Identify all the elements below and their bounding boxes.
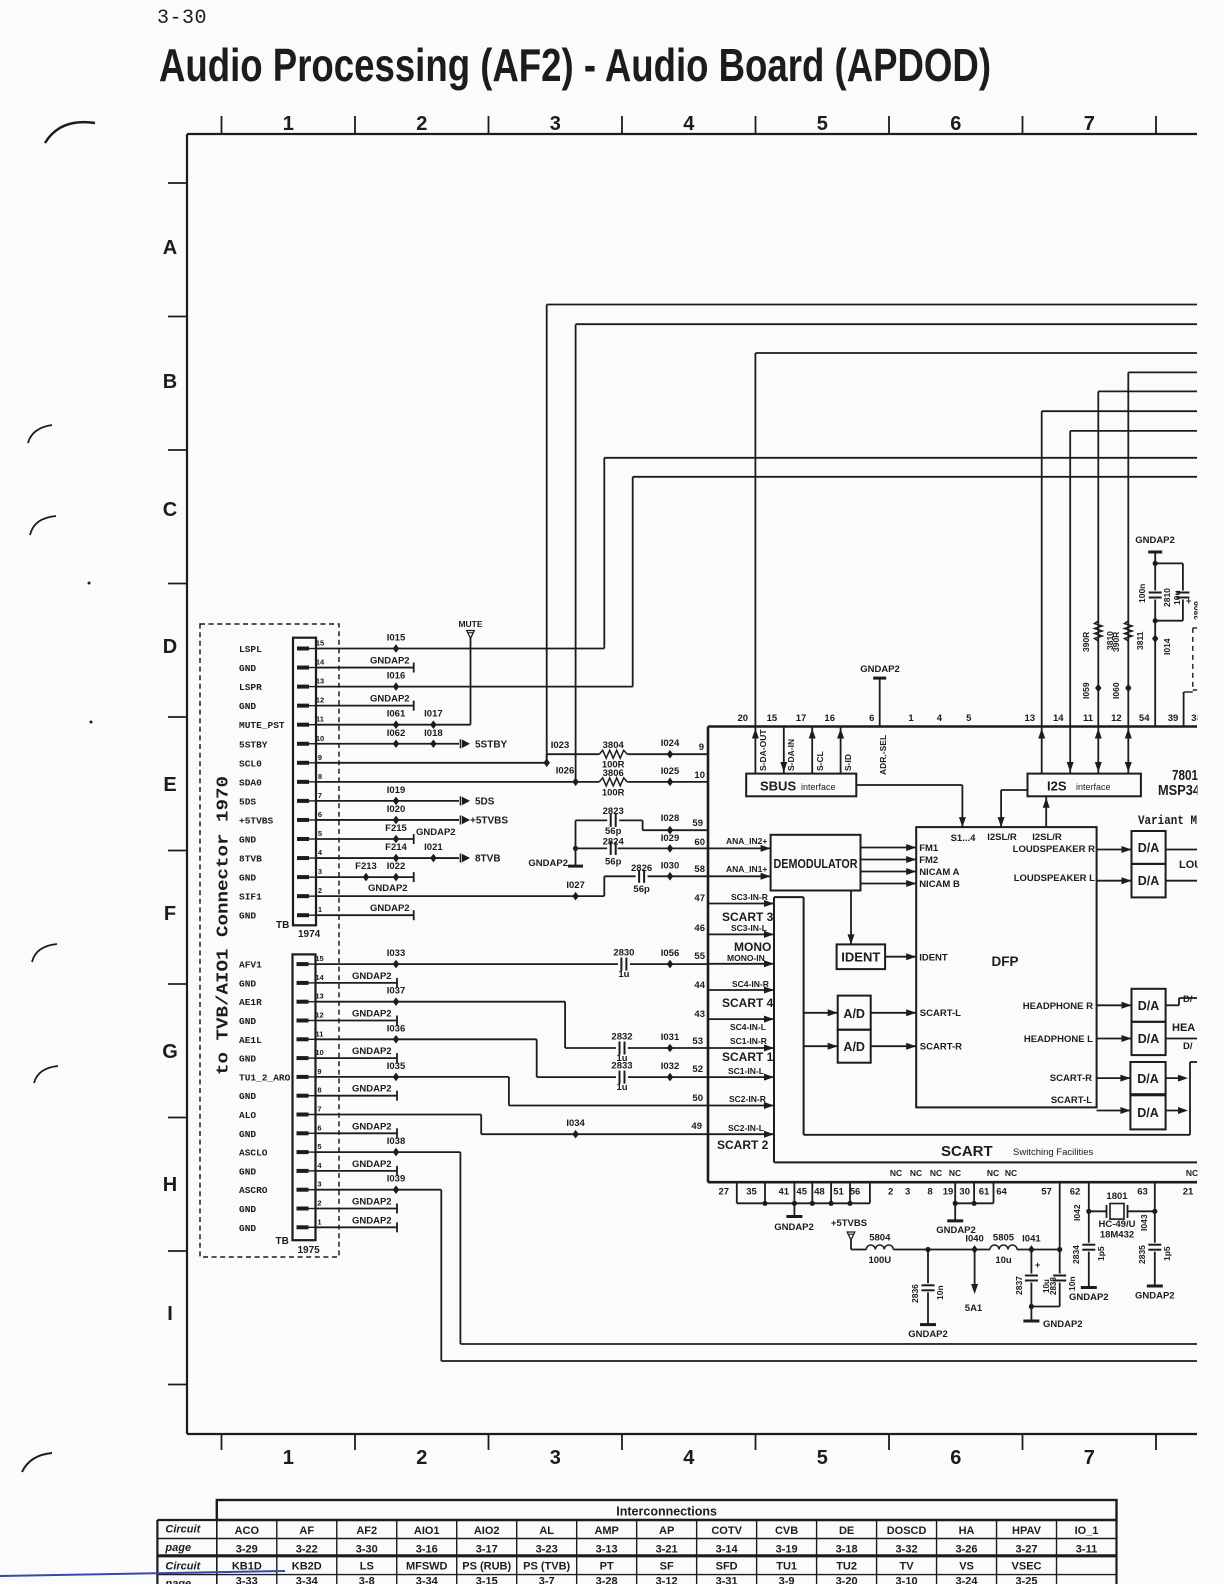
svg-text:GND: GND bbox=[239, 1204, 256, 1215]
junction pin 57 bbox=[1057, 1247, 1062, 1252]
wire TU1_2_ARO pin9 to IC pin 50 bbox=[316, 1076, 509, 1078]
svg-text:10: 10 bbox=[315, 1048, 323, 1057]
svg-text:GNDAP2: GNDAP2 bbox=[860, 664, 900, 675]
svg-text:44: 44 bbox=[694, 980, 705, 991]
svg-text:3804: 3804 bbox=[603, 740, 625, 751]
svg-text:55: 55 bbox=[694, 951, 705, 962]
svg-text:11: 11 bbox=[316, 715, 324, 724]
pin 60 cap 2824 bbox=[644, 847, 708, 849]
svg-text:5STBY: 5STBY bbox=[239, 739, 268, 750]
svg-text:56p: 56p bbox=[605, 856, 622, 867]
svg-text:8: 8 bbox=[318, 772, 322, 781]
svg-text:page: page bbox=[164, 1578, 191, 1584]
svg-text:DOSCD: DOSCD bbox=[887, 1525, 927, 1537]
svg-text:2: 2 bbox=[317, 1199, 321, 1208]
svg-text:SCART-L: SCART-L bbox=[1051, 1095, 1092, 1106]
svg-text:2: 2 bbox=[416, 113, 427, 135]
svg-text:HEADPHONE R: HEADPHONE R bbox=[1023, 1001, 1093, 1012]
svg-text:Switching Facilities: Switching Facilities bbox=[1013, 1147, 1093, 1158]
bead I019 bbox=[393, 797, 399, 806]
svg-text:F: F bbox=[164, 903, 176, 925]
svg-text:3-13: 3-13 bbox=[596, 1544, 618, 1556]
svg-text:ASCRO: ASCRO bbox=[239, 1185, 268, 1196]
svg-text:2830: 2830 bbox=[613, 948, 634, 959]
column ticks and numbers top bbox=[221, 116, 223, 134]
SCART-R arrow to DA bbox=[1097, 1077, 1131, 1079]
svg-text:3811: 3811 bbox=[1135, 631, 1145, 650]
svg-text:20: 20 bbox=[738, 713, 749, 724]
svg-text:2838: 2838 bbox=[1049, 1277, 1058, 1295]
wire SIF1 pin2 to cap 2826 bbox=[316, 895, 604, 897]
svg-text:10: 10 bbox=[316, 734, 324, 743]
svg-text:NC: NC bbox=[930, 1168, 942, 1178]
svg-text:7: 7 bbox=[317, 1105, 321, 1114]
wire GND pin6 stub bbox=[316, 1132, 397, 1134]
svg-text:I2SL/R: I2SL/R bbox=[987, 832, 1017, 843]
svg-text:SCART 3: SCART 3 bbox=[722, 910, 774, 924]
svg-text:I033: I033 bbox=[387, 948, 406, 959]
svg-text:KB2D: KB2D bbox=[292, 1561, 322, 1573]
svg-text:GNDAP2: GNDAP2 bbox=[908, 1329, 948, 1340]
svg-text:3-28: 3-28 bbox=[596, 1576, 618, 1584]
svg-text:D: D bbox=[163, 636, 177, 658]
svg-text:GND: GND bbox=[239, 911, 256, 922]
bead I039 bbox=[393, 1185, 399, 1194]
svg-text:NC: NC bbox=[910, 1168, 922, 1178]
DA headphone R box bbox=[1132, 989, 1166, 1022]
svg-text:GNDAP2: GNDAP2 bbox=[352, 1084, 392, 1095]
wire pin11 I2S bidirectional with resistor 3810 bbox=[1097, 727, 1099, 774]
svg-text:2823: 2823 bbox=[603, 806, 624, 817]
svg-text:SC4-IN-L: SC4-IN-L bbox=[730, 1022, 766, 1032]
svg-text:DEMODULATOR: DEMODULATOR bbox=[774, 857, 858, 871]
svg-text:NC: NC bbox=[1005, 1168, 1017, 1178]
svg-text:3-9: 3-9 bbox=[779, 1576, 795, 1584]
svg-text:2835: 2835 bbox=[1137, 1245, 1147, 1264]
svg-text:10: 10 bbox=[694, 770, 705, 781]
DA headphone L box bbox=[1132, 1022, 1166, 1055]
svg-text:AF2: AF2 bbox=[356, 1525, 377, 1537]
svg-text:2: 2 bbox=[318, 886, 322, 895]
svg-text:S-CL: S-CL bbox=[815, 751, 825, 771]
wire AFV1 pin15 to cap 2830 to IC pin 55 bbox=[316, 963, 618, 965]
wire pin39 to dashed module bbox=[1183, 692, 1185, 727]
svg-text:8: 8 bbox=[927, 1187, 932, 1198]
svg-text:+5TVBS: +5TVBS bbox=[831, 1218, 867, 1229]
svg-text:14: 14 bbox=[316, 658, 325, 667]
svg-text:50: 50 bbox=[692, 1093, 703, 1104]
bead I040 and 5A1 arrow bbox=[971, 1245, 977, 1254]
svg-text:35: 35 bbox=[746, 1187, 757, 1198]
svg-text:58: 58 bbox=[694, 864, 705, 875]
svg-text:56p: 56p bbox=[605, 826, 622, 837]
svg-text:I016: I016 bbox=[387, 671, 406, 682]
svg-text:GND: GND bbox=[239, 1129, 256, 1140]
svg-text:9: 9 bbox=[318, 753, 322, 762]
svg-text:51: 51 bbox=[833, 1187, 844, 1198]
connector TB1975 bbox=[293, 954, 316, 1240]
svg-text:5STBY: 5STBY bbox=[475, 739, 508, 750]
schematic frame border bbox=[187, 133, 1197, 135]
svg-text:NICAM A: NICAM A bbox=[919, 867, 959, 878]
wire GND pin3 stub with beads F213 I022 bbox=[316, 876, 414, 878]
svg-text:6: 6 bbox=[317, 1123, 321, 1132]
wire GND pin12 stub bbox=[316, 705, 414, 707]
svg-text:4: 4 bbox=[683, 1447, 695, 1469]
svg-text:10u: 10u bbox=[995, 1255, 1012, 1266]
svg-text:3: 3 bbox=[550, 113, 561, 135]
svg-text:I040: I040 bbox=[965, 1234, 984, 1245]
svg-text:6: 6 bbox=[950, 1447, 961, 1469]
svg-text:2832: 2832 bbox=[611, 1032, 632, 1043]
svg-text:57: 57 bbox=[1041, 1187, 1052, 1198]
svg-text:HEADPHONE L: HEADPHONE L bbox=[1024, 1034, 1093, 1045]
svg-text:GNDAP2: GNDAP2 bbox=[368, 883, 408, 894]
svg-text:3-29: 3-29 bbox=[236, 1544, 258, 1556]
svg-text:1: 1 bbox=[908, 713, 914, 724]
svg-text:PT: PT bbox=[600, 1561, 614, 1573]
svg-text:TV: TV bbox=[900, 1561, 915, 1573]
HEADPHONE R arrow to DA bbox=[1097, 1004, 1132, 1006]
svg-text:F215: F215 bbox=[385, 823, 407, 834]
svg-text:AE1R: AE1R bbox=[239, 997, 262, 1008]
resistor 3806 100R to IC pin 10 bbox=[599, 778, 627, 786]
svg-text:3-27: 3-27 bbox=[1016, 1544, 1038, 1556]
bead I041 bbox=[1028, 1245, 1034, 1254]
svg-text:27: 27 bbox=[719, 1187, 730, 1198]
wire +5TVBS pin6 bbox=[316, 819, 459, 821]
DFP to I2S wire bbox=[1045, 796, 1047, 827]
svg-text:30: 30 bbox=[959, 1187, 970, 1198]
svg-text:5804: 5804 bbox=[869, 1233, 891, 1244]
svg-text:MONO-IN: MONO-IN bbox=[727, 953, 765, 963]
svg-text:NICAM B: NICAM B bbox=[919, 879, 960, 890]
svg-text:3-17: 3-17 bbox=[476, 1544, 498, 1556]
wire GND pin8 stub bbox=[316, 1095, 397, 1097]
capacitor 2834 1p5 bbox=[1082, 1243, 1095, 1252]
svg-text:FM1: FM1 bbox=[919, 843, 939, 854]
bead I034 bbox=[572, 1130, 578, 1139]
svg-text:3-33: 3-33 bbox=[236, 1576, 258, 1584]
svg-text:PS (RUB): PS (RUB) bbox=[462, 1561, 511, 1573]
svg-text:53: 53 bbox=[692, 1036, 703, 1047]
svg-text:3-25: 3-25 bbox=[1016, 1576, 1038, 1584]
jog and resistor 3804 100R to IC pin 9 bbox=[546, 754, 548, 763]
svg-text:MONO: MONO bbox=[734, 940, 771, 954]
svg-text:60: 60 bbox=[694, 837, 705, 848]
svg-text:390R: 390R bbox=[1111, 632, 1121, 652]
svg-text:GNDAP2: GNDAP2 bbox=[352, 971, 392, 982]
svg-text:GNDAP2: GNDAP2 bbox=[352, 1009, 392, 1020]
svg-text:SCART: SCART bbox=[941, 1143, 993, 1160]
svg-text:1p5: 1p5 bbox=[1096, 1246, 1106, 1261]
arrows SCART bus to AD bbox=[804, 1012, 838, 1014]
capacitor 2830 1u bbox=[619, 958, 628, 971]
svg-text:3: 3 bbox=[550, 1447, 561, 1469]
svg-text:10u: 10u bbox=[1172, 590, 1182, 605]
bead I031 bbox=[667, 1044, 673, 1053]
wire MUTE_PST pin11 to MUTE arrow bbox=[316, 724, 471, 726]
svg-text:11: 11 bbox=[316, 1029, 324, 1038]
svg-text:GND: GND bbox=[239, 663, 256, 674]
svg-text:7: 7 bbox=[1084, 113, 1095, 135]
svg-text:I015: I015 bbox=[387, 633, 406, 644]
svg-text:5: 5 bbox=[817, 1447, 828, 1469]
svg-text:I019: I019 bbox=[387, 785, 406, 796]
svg-text:AMP: AMP bbox=[594, 1525, 618, 1537]
wire GND pin5 stub with bead F215 bbox=[316, 838, 414, 840]
wire LSPL pin15 to net bbox=[316, 648, 604, 650]
svg-text:3-31: 3-31 bbox=[716, 1576, 738, 1584]
svg-text:NC: NC bbox=[1186, 1168, 1198, 1178]
svg-text:3-15: 3-15 bbox=[476, 1576, 498, 1584]
svg-text:GNDAP2: GNDAP2 bbox=[352, 1046, 392, 1057]
svg-text:7: 7 bbox=[318, 791, 322, 800]
SBUS interface box bbox=[746, 774, 856, 797]
svg-text:GND: GND bbox=[239, 1091, 256, 1102]
svg-text:100n: 100n bbox=[1137, 584, 1147, 603]
svg-text:GNDAP2: GNDAP2 bbox=[1043, 1319, 1083, 1330]
svg-text:3-16: 3-16 bbox=[416, 1544, 438, 1556]
svg-text:43: 43 bbox=[694, 1009, 705, 1020]
svg-text:GNDAP2: GNDAP2 bbox=[0, 0, 40, 3]
svg-text:I021: I021 bbox=[424, 842, 443, 853]
svg-text:GNDAP2: GNDAP2 bbox=[1135, 535, 1175, 546]
svg-text:6: 6 bbox=[950, 113, 961, 135]
feedback bus bottom horizontal bbox=[804, 1134, 1190, 1136]
capacitor 2833 1u bbox=[618, 1071, 627, 1084]
bead I038 bbox=[393, 1148, 399, 1157]
bead I028 bbox=[667, 826, 673, 835]
svg-text:2824: 2824 bbox=[603, 836, 625, 847]
svg-text:9: 9 bbox=[317, 1067, 321, 1076]
svg-text:10n: 10n bbox=[935, 1285, 945, 1300]
svg-text:54: 54 bbox=[1139, 713, 1150, 724]
svg-text:GND: GND bbox=[239, 1166, 256, 1177]
svg-text:D/: D/ bbox=[1183, 1041, 1193, 1052]
svg-text:I026: I026 bbox=[556, 766, 575, 777]
svg-text:5: 5 bbox=[317, 1142, 321, 1151]
svg-text:GND: GND bbox=[239, 835, 256, 846]
ANA_IN2+ input wire pin 60 bbox=[708, 847, 771, 849]
svg-text:13: 13 bbox=[1025, 713, 1036, 724]
svg-text:S-ID: S-ID bbox=[843, 754, 853, 771]
blue pen line bottom left bbox=[0, 1571, 285, 1576]
DFP box bbox=[916, 827, 1096, 1107]
svg-text:interface: interface bbox=[801, 782, 836, 792]
svg-text:AFV1: AFV1 bbox=[239, 960, 262, 971]
row ticks and letters left bbox=[168, 182, 187, 184]
bead F214 bbox=[393, 854, 399, 863]
svg-text:I061: I061 bbox=[387, 709, 406, 720]
capacitor 2810 100n bbox=[1149, 591, 1162, 600]
wire pin17 S-CL bbox=[811, 727, 813, 774]
bead I062 bbox=[393, 739, 399, 748]
svg-text:GNDAP2: GNDAP2 bbox=[528, 858, 568, 869]
svg-text:Circuit: Circuit bbox=[165, 1561, 201, 1573]
svg-text:GND: GND bbox=[239, 701, 256, 712]
DEMODULATOR to DFP arrows FM1 FM2 NICAM A NICAM B bbox=[861, 847, 917, 849]
svg-text:TB: TB bbox=[276, 920, 289, 931]
svg-text:AL: AL bbox=[539, 1525, 554, 1537]
svg-text:52: 52 bbox=[692, 1064, 703, 1075]
svg-text:FM2: FM2 bbox=[919, 855, 938, 866]
svg-text:+5TVBS: +5TVBS bbox=[239, 815, 274, 826]
svg-text:SC1-IN-L: SC1-IN-L bbox=[728, 1066, 764, 1076]
svg-text:6: 6 bbox=[318, 810, 322, 819]
svg-text:ASCLO: ASCLO bbox=[239, 1148, 268, 1159]
wire GND pin14 stub bbox=[316, 982, 397, 984]
svg-text:I028: I028 bbox=[661, 813, 680, 824]
svg-text:MSP34: MSP34 bbox=[1158, 782, 1201, 799]
wire GND pin1 stub bbox=[316, 1226, 397, 1228]
wire pin15 S-DA-IN bbox=[783, 727, 785, 774]
svg-text:Audio Processing (AF2) - Audio: Audio Processing (AF2) - Audio Board (AP… bbox=[159, 39, 991, 91]
svg-text:47: 47 bbox=[694, 893, 705, 904]
svg-text:AF: AF bbox=[299, 1525, 314, 1537]
svg-text:ANA_IN1+: ANA_IN1+ bbox=[726, 864, 767, 874]
svg-text:I031: I031 bbox=[661, 1032, 680, 1043]
svg-text:100U: 100U bbox=[868, 1255, 891, 1266]
svg-text:3-30: 3-30 bbox=[356, 1544, 378, 1556]
svg-text:13: 13 bbox=[316, 677, 324, 686]
svg-text:GND: GND bbox=[239, 1054, 256, 1065]
capacitor 2836 10n bbox=[922, 1283, 935, 1292]
svg-text:1u: 1u bbox=[616, 1082, 627, 1093]
svg-text:MUTE: MUTE bbox=[458, 619, 482, 629]
bead I037 bbox=[393, 997, 399, 1006]
svg-text:5805: 5805 bbox=[993, 1233, 1015, 1244]
connector TB1974 bbox=[293, 638, 316, 926]
pin6 ADR.-SEL to GNDAP2 bbox=[879, 678, 881, 726]
svg-text:62: 62 bbox=[1070, 1187, 1081, 1198]
svg-text:SCART-L: SCART-L bbox=[920, 1008, 961, 1019]
svg-text:I2SL/R: I2SL/R bbox=[1032, 832, 1062, 843]
svg-text:I024: I024 bbox=[661, 738, 680, 749]
svg-text:C: C bbox=[163, 499, 177, 521]
svg-text:4: 4 bbox=[683, 113, 695, 135]
wire AE1L pin11 to cap 2833 to IC pin 52 bbox=[316, 1038, 537, 1040]
svg-text:Circuit: Circuit bbox=[165, 1524, 201, 1536]
wire 5STBY pin10 bbox=[316, 743, 459, 745]
wire pin14 I2S down arrow bbox=[1069, 727, 1071, 774]
svg-text:E: E bbox=[163, 774, 176, 796]
svg-text:1801: 1801 bbox=[1106, 1191, 1128, 1202]
svg-text:TU2: TU2 bbox=[836, 1561, 857, 1573]
svg-text:2833: 2833 bbox=[611, 1061, 632, 1072]
inductor 5804 100U bbox=[866, 1245, 893, 1250]
svg-text:100R: 100R bbox=[602, 787, 625, 798]
svg-text:G: G bbox=[162, 1041, 178, 1063]
svg-text:21: 21 bbox=[1183, 1187, 1194, 1198]
wire AE1R pin13 to cap 2832 to IC pin 53 bbox=[316, 1001, 565, 1003]
svg-text:I036: I036 bbox=[387, 1023, 406, 1034]
svg-text:10n: 10n bbox=[1067, 1276, 1077, 1291]
svg-text:HEA: HEA bbox=[1172, 1022, 1195, 1034]
svg-text:ACO: ACO bbox=[235, 1525, 260, 1537]
ground GNDAP2 left bracket bbox=[793, 1203, 795, 1216]
svg-text:GND: GND bbox=[239, 1016, 256, 1027]
svg-text:I060: I060 bbox=[1111, 682, 1121, 699]
svg-text:HA: HA bbox=[959, 1525, 975, 1537]
svg-text:390R: 390R bbox=[1081, 632, 1091, 652]
svg-text:VS: VS bbox=[959, 1561, 974, 1573]
svg-text:8TVB: 8TVB bbox=[475, 854, 501, 865]
IC 7801 MSP34xx outline bbox=[708, 725, 1197, 728]
wire GND pin14 stub bbox=[316, 667, 414, 669]
bead I035 bbox=[393, 1073, 399, 1082]
bead I060 bbox=[1125, 684, 1131, 693]
svg-text:3-30: 3-30 bbox=[157, 7, 207, 30]
svg-text:3-26: 3-26 bbox=[956, 1544, 978, 1556]
wire SCL0 pin9 to bus and resistor 3804 bbox=[316, 762, 547, 764]
svg-text:interface: interface bbox=[1076, 782, 1111, 792]
svg-text:LOUDSPEAKER R: LOUDSPEAKER R bbox=[1013, 844, 1095, 855]
I2S left wire to DFP bbox=[1001, 789, 1027, 791]
svg-text:B: B bbox=[163, 371, 177, 393]
table grid bbox=[157, 1519, 1116, 1521]
bead I015 bbox=[393, 644, 399, 653]
bead I030 bbox=[667, 872, 673, 881]
svg-text:ANA_IN2+: ANA_IN2+ bbox=[726, 836, 767, 846]
wire 5DS pin7 bbox=[316, 800, 459, 802]
svg-text:SFD: SFD bbox=[716, 1561, 738, 1573]
svg-text:46: 46 bbox=[694, 923, 705, 934]
capacitor 2835 1p5 bbox=[1148, 1243, 1161, 1252]
bead I014 bbox=[1152, 634, 1158, 643]
svg-text:1975: 1975 bbox=[298, 1245, 321, 1256]
svg-text:SCART 1: SCART 1 bbox=[722, 1050, 774, 1064]
svg-text:64: 64 bbox=[996, 1187, 1007, 1198]
svg-text:IDENT: IDENT bbox=[919, 953, 948, 964]
wire GND pin10 stub bbox=[316, 1057, 397, 1059]
pin 59 wire with caps 2823 2824 to GNDAP2 bbox=[643, 829, 708, 831]
svg-text:3-34: 3-34 bbox=[416, 1576, 439, 1584]
svg-text:18M432: 18M432 bbox=[1100, 1230, 1134, 1241]
svg-text:12: 12 bbox=[1111, 713, 1122, 724]
svg-text:SCART 4: SCART 4 bbox=[722, 996, 774, 1010]
bead I021 bbox=[430, 854, 436, 863]
wire GND pin4 stub bbox=[316, 1170, 397, 1172]
svg-text:5DS: 5DS bbox=[475, 796, 495, 807]
svg-text:TU1_2_ARO: TU1_2_ARO bbox=[239, 1072, 291, 1083]
svg-text:SCART-R: SCART-R bbox=[920, 1042, 962, 1053]
svg-text:14: 14 bbox=[315, 973, 324, 982]
svg-text:Variant M: Variant M bbox=[1138, 813, 1197, 828]
svg-text:I056: I056 bbox=[661, 948, 680, 959]
svg-text:I043: I043 bbox=[1139, 1214, 1149, 1231]
svg-text:I018: I018 bbox=[424, 728, 443, 739]
svg-text:2836: 2836 bbox=[910, 1284, 920, 1303]
HEADPHONE L arrow to DA bbox=[1097, 1038, 1132, 1040]
svg-text:IO_1: IO_1 bbox=[1075, 1525, 1099, 1537]
svg-text:D/A: D/A bbox=[1138, 841, 1160, 855]
SCART-L arrow to DA bbox=[1097, 1110, 1131, 1112]
ground GNDAP2 right bracket bbox=[954, 1203, 956, 1221]
ground bracket pins 27-56 bbox=[736, 1182, 738, 1203]
svg-text:NC: NC bbox=[987, 1168, 999, 1178]
svg-text:63: 63 bbox=[1137, 1187, 1148, 1198]
svg-text:MFSWD: MFSWD bbox=[406, 1561, 448, 1573]
svg-text:8TVB: 8TVB bbox=[239, 854, 262, 865]
resistor 3810 390R bbox=[1095, 621, 1103, 641]
svg-text:15: 15 bbox=[767, 713, 778, 724]
svg-text:3-7: 3-7 bbox=[539, 1576, 555, 1584]
LOUDSPEAKER L arrow to DA bbox=[1097, 880, 1132, 882]
svg-text:GNDAP2: GNDAP2 bbox=[416, 827, 456, 838]
svg-text:6: 6 bbox=[869, 713, 874, 724]
svg-text:GNDAP2: GNDAP2 bbox=[370, 694, 410, 705]
